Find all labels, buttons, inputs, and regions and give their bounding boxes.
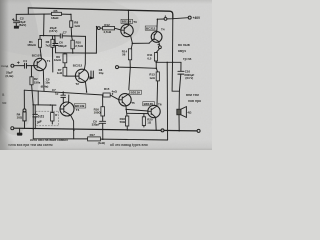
wire: decoupled rail left segment	[16, 13, 51, 15]
wire: R2 column continues through rail to feedback	[32, 105, 34, 139]
label C2 plus sign	[12, 18, 14, 20]
resistor R12 horizontal	[103, 27, 115, 30]
transistor T5	[119, 94, 131, 106]
wire: to R13	[156, 68, 157, 72]
wire: C9 down to feedback line	[102, 123, 104, 139]
resistor R17 feedback	[88, 137, 101, 141]
wire: T5 emitter column to R18	[125, 109, 128, 116]
resistor R7	[63, 67, 67, 76]
capacitor C11 0.01uF	[33, 114, 38, 117]
feedback line	[33, 139, 167, 140]
svg-text:2,7кΩ: 2,7кΩ	[75, 44, 83, 48]
terminal circle on rail right	[161, 129, 164, 132]
resistor R3 stub	[52, 36, 54, 40]
svg-text:1кΩ: 1кΩ	[149, 76, 155, 80]
output ground terminal	[197, 129, 200, 132]
svg-text:56Ω: 56Ω	[120, 120, 126, 124]
wire: T2 emitter drop	[85, 82, 86, 92]
node: dot feedback col	[102, 138, 104, 140]
node: dot at x172.6 on y62	[172, 62, 174, 64]
wire: R18 to rail	[126, 126, 128, 130]
bottom ground rail	[14, 128, 197, 131]
edge shading	[0, 0, 212, 4]
svg-text:Т4: Т4	[161, 28, 165, 32]
dashed option box	[36, 111, 59, 126]
node: dot riser top	[96, 26, 97, 27]
wire: C10 to speaker	[179, 74, 181, 109]
wire: mid terminal to R13 column	[119, 67, 157, 68]
node: base node dot	[64, 75, 66, 77]
wire: R20 to rail	[143, 125, 145, 127]
svg-text:330pF: 330pF	[92, 123, 101, 127]
svg-text:R12: R12	[104, 23, 110, 27]
svg-text:C7: C7	[63, 30, 67, 34]
capacitor C7b in base stub	[61, 95, 66, 97]
resistor R3	[51, 39, 54, 47]
wire: mid horizontal y105	[33, 104, 56, 106]
capacitor C7 in node wire	[60, 34, 62, 38]
svg-text:10µ: 10µ	[99, 71, 104, 75]
wire: C1 to base with drop to R2	[27, 66, 35, 77]
capacitor C10	[178, 71, 184, 74]
ground symbol below C2	[14, 26, 19, 29]
wire: circle to R11	[156, 41, 160, 52]
transistor T2	[75, 69, 88, 82]
svg-text:1кΩ: 1кΩ	[57, 71, 63, 75]
node: dot T3 emitter junction	[132, 43, 134, 45]
wire: stub into T2L top	[62, 92, 64, 104]
wire: riser x96.6 to T3 base line	[95, 27, 97, 53]
svg-text:1кΩ: 1кΩ	[74, 24, 80, 28]
capacitor C8	[91, 71, 93, 78]
wire: decoupled rail right segment	[62, 13, 71, 15]
wire: T5 emitter down	[125, 106, 127, 110]
capacitor C11 stub	[34, 105, 36, 114]
resistor R15h horizontal base resistor	[103, 93, 110, 97]
node: dot R2 column rail	[33, 128, 35, 130]
svg-text:7к2: 7к2	[45, 43, 50, 47]
node: dot right of R15	[112, 93, 114, 95]
svg-text:(6вV): (6вV)	[19, 23, 27, 27]
wire: T2 collector riser	[84, 36, 85, 70]
resistor R11	[154, 53, 157, 61]
wire: to T4 base	[132, 42, 149, 44]
transistor T1 base bar	[34, 60, 43, 70]
transistor T3 internals	[121, 25, 131, 36]
wire: base wire into T5	[110, 95, 119, 100]
column x102: R16	[101, 107, 105, 116]
node: dot feedback top	[166, 62, 168, 64]
terminal +40V	[188, 16, 191, 19]
wire: R8 bottom to node wire	[70, 27, 72, 36]
wire: R4 column top	[23, 90, 25, 109]
resistor R10	[71, 40, 74, 49]
node: dot on mid wire	[130, 67, 132, 69]
transistor T4 internals	[149, 32, 159, 43]
wire: R13 bottom down to T6 collector	[156, 81, 159, 106]
wire: R14b stubs	[51, 105, 53, 124]
svg-text:+40V: +40V	[193, 16, 201, 20]
wire: T6 emitter to rail	[155, 117, 158, 130]
resistor R20	[142, 117, 145, 126]
wire: R7 bottom to T2 base	[65, 75, 75, 77]
wire: link y91 to y105	[37, 91, 39, 105]
resistor R20 stub	[143, 114, 145, 117]
svg-text:1µ: 1µ	[55, 91, 59, 95]
resistor R9 stub	[64, 53, 66, 54]
wire: C11 to rail	[34, 117, 36, 129]
capacitor C2	[14, 21, 20, 26]
node wire y36	[40, 35, 86, 38]
resistor R14b small	[51, 113, 54, 122]
wire: y113 shelf	[127, 112, 148, 114]
node: dot at +40 line left	[157, 18, 159, 20]
long mid wire y91-95	[24, 90, 103, 95]
wire: T2L emitter through rail to feedback	[71, 115, 74, 139]
wire: circle to R12	[97, 27, 121, 30]
label frame T6	[143, 102, 155, 106]
wire: R4 to rail	[24, 121, 26, 129]
svg-text:150кΩ: 150кΩ	[27, 43, 36, 47]
wire: R16 to C9	[102, 116, 104, 121]
resistor R1	[38, 39, 41, 47]
input ground terminal	[11, 127, 14, 130]
svg-text:(6,4в): (6,4в)	[41, 84, 49, 88]
node: dot at drop top	[43, 14, 44, 15]
transistor T1	[34, 58, 46, 70]
label frame T3	[121, 19, 133, 23]
svg-text:4,7кΩ: 4,7кΩ	[103, 30, 111, 34]
transistor T5 internals	[119, 94, 129, 106]
svg-text:Т5: Т5	[131, 101, 135, 105]
resistor R8 wire top	[70, 14, 72, 20]
terminal circle under T4 emitter	[159, 46, 162, 49]
diode arrow near T2	[89, 76, 94, 79]
svg-text:12кΩ: 12кΩ	[54, 58, 62, 62]
svg-text:тр на: тр на	[183, 57, 192, 61]
capacitor C6 drop	[54, 36, 57, 43]
input terminal	[11, 64, 14, 67]
terminal circle above R4	[23, 109, 26, 112]
capacitor C1	[25, 63, 27, 68]
speaker horn	[181, 107, 186, 118]
resistor R14 mid column	[128, 49, 131, 60]
svg-text:во ныв: во ныв	[178, 43, 190, 47]
resistor R18	[126, 116, 129, 126]
svg-text:BC212: BC212	[146, 26, 156, 30]
label frame T2L	[74, 104, 86, 108]
svg-text:Т2: Т2	[75, 82, 79, 86]
wire: T3 collector to rail	[127, 10, 129, 25]
node: junction R8 bottom	[71, 35, 73, 37]
wire: emitter to T6 base	[126, 109, 148, 111]
svg-text:56: 56	[122, 53, 126, 57]
terminal circle mid	[116, 66, 119, 69]
wire: T4 collector to +40 line	[156, 19, 159, 32]
wire: R11 bottom to node y62	[155, 61, 157, 68]
speaker driver box	[177, 109, 181, 115]
resistor R9	[63, 54, 67, 63]
wire: right vertical A	[172, 19, 179, 92]
wire: top supply rail	[28, 8, 173, 19]
svg-text:BD139: BD139	[122, 20, 132, 24]
resistor R7 stub top	[64, 63, 66, 68]
svg-text:С1: С1	[23, 59, 27, 63]
wire: C2 stub	[15, 14, 17, 20]
node: dot T3 collector on rail	[128, 9, 130, 11]
wire: C10 column top	[180, 62, 182, 71]
wire: drop from rail x44	[43, 14, 45, 35]
chassis ground symbol	[17, 133, 22, 136]
svg-text:(16 V): (16 V)	[49, 29, 57, 33]
svg-text:0,5: 0,5	[147, 56, 151, 60]
transistor T6	[148, 105, 160, 117]
svg-text:1Ω: 1Ω	[147, 120, 152, 124]
node: dot feedback-rail	[73, 129, 75, 131]
label frame T5	[130, 90, 142, 94]
svg-text:R15: R15	[104, 87, 110, 91]
wire: R1 to T1 collector	[40, 47, 42, 59]
wire: R14 bottom to mid wire	[129, 60, 131, 68]
svg-text:Т1: Т1	[47, 59, 51, 63]
label frame T4	[145, 26, 157, 30]
transistor T3	[121, 24, 133, 36]
terminal circle on +40 line	[164, 18, 167, 21]
wire: T1 emitter down to wire	[42, 70, 45, 91]
resistor R13	[156, 72, 159, 81]
resistor R5	[52, 12, 62, 15]
transistor T2 internals	[75, 70, 85, 82]
svg-text:R5: R5	[54, 9, 58, 13]
resistor R1 stub	[39, 36, 41, 40]
svg-text:BC107: BC107	[32, 53, 42, 57]
node: tick above emitter circle	[158, 44, 159, 45]
node: dot T2 emitter on long wire	[86, 91, 88, 93]
transistor T4	[151, 32, 162, 43]
wire: +40V line	[157, 18, 188, 20]
resistor R8	[70, 21, 73, 28]
wire: left riser joining rails	[27, 8, 29, 14]
wire: input to C1	[14, 65, 25, 67]
node: dot y105 right	[50, 104, 52, 106]
node: dot T5 emitter	[125, 109, 127, 111]
svg-text:680pF: 680pF	[58, 44, 67, 48]
node: dot R16 top	[102, 94, 104, 96]
wire: speaker to rail	[178, 115, 180, 131]
wire: R2 down to mid wire	[32, 85, 34, 105]
wire: mid column down to T5	[129, 67, 131, 89]
node: dot y62	[155, 62, 157, 64]
capacitor C6	[53, 44, 58, 46]
svg-text:R17: R17	[90, 133, 96, 137]
wire: feedback right riser tall	[166, 62, 168, 140]
svg-text:впи тем: впи тем	[186, 93, 199, 97]
wire: R10 bottom to y53 wire	[72, 49, 74, 53]
wire: R16 top stub	[102, 95, 104, 107]
node: dot y105 left	[32, 104, 34, 106]
wire: R3 down	[52, 47, 54, 72]
node: junction at R8 top	[70, 14, 72, 16]
paper background	[0, 0, 212, 150]
wire: y62 bootstrap to C10 column	[156, 61, 181, 63]
svg-text:4кΩ: 4кΩ	[112, 90, 118, 94]
svg-text:нов про: нов про	[188, 99, 201, 103]
terminal circle at R12 left	[97, 27, 100, 30]
resistor R2	[30, 77, 33, 85]
svg-text:(64 V): (64 V)	[185, 76, 193, 80]
label C1 plus	[17, 62, 19, 64]
transistor T6 internals	[148, 106, 157, 117]
capacitor C9	[100, 121, 106, 123]
svg-text:Т4: Т4	[76, 108, 80, 112]
wire: T3 emitter down	[131, 36, 133, 44]
svg-text:BD136: BD136	[144, 102, 154, 106]
svg-text:10Ω: 10Ω	[17, 116, 23, 120]
node: dot mid wire meets R13	[156, 68, 158, 70]
transistor T2L	[60, 102, 74, 116]
svg-text:0,01: 0,01	[38, 115, 44, 119]
svg-text:амуч: амуч	[178, 49, 186, 53]
node: dot speaker rail	[178, 130, 180, 132]
svg-text:100Ω: 100Ω	[94, 111, 102, 115]
resistor R10 stub	[71, 36, 74, 40]
svg-text:Т6: Т6	[158, 102, 162, 106]
svg-text:18кΩ: 18кΩ	[51, 16, 59, 20]
resistor R4	[23, 112, 26, 121]
svg-text:BC212: BC212	[73, 63, 83, 67]
svg-text:4Ω: 4Ω	[187, 111, 192, 115]
node: dot at drop bottom	[43, 35, 44, 36]
node: junction C6 tap	[54, 35, 56, 37]
wire: C6 to y53 wire	[54, 46, 56, 53]
ghost bleed-through text	[2, 43, 201, 147]
wire: down to R14	[131, 43, 132, 48]
node: dot R10 y53	[72, 52, 74, 54]
svg-text:BD139: BD139	[131, 91, 141, 95]
transistor T2L internals	[60, 103, 71, 115]
wire: T2L collector up	[68, 95, 70, 103]
wire: y53 horizontal	[56, 52, 97, 54]
node: tick above	[165, 15, 166, 16]
chassis ground stub	[19, 128, 21, 132]
svg-text:Т3: Т3	[133, 20, 137, 24]
